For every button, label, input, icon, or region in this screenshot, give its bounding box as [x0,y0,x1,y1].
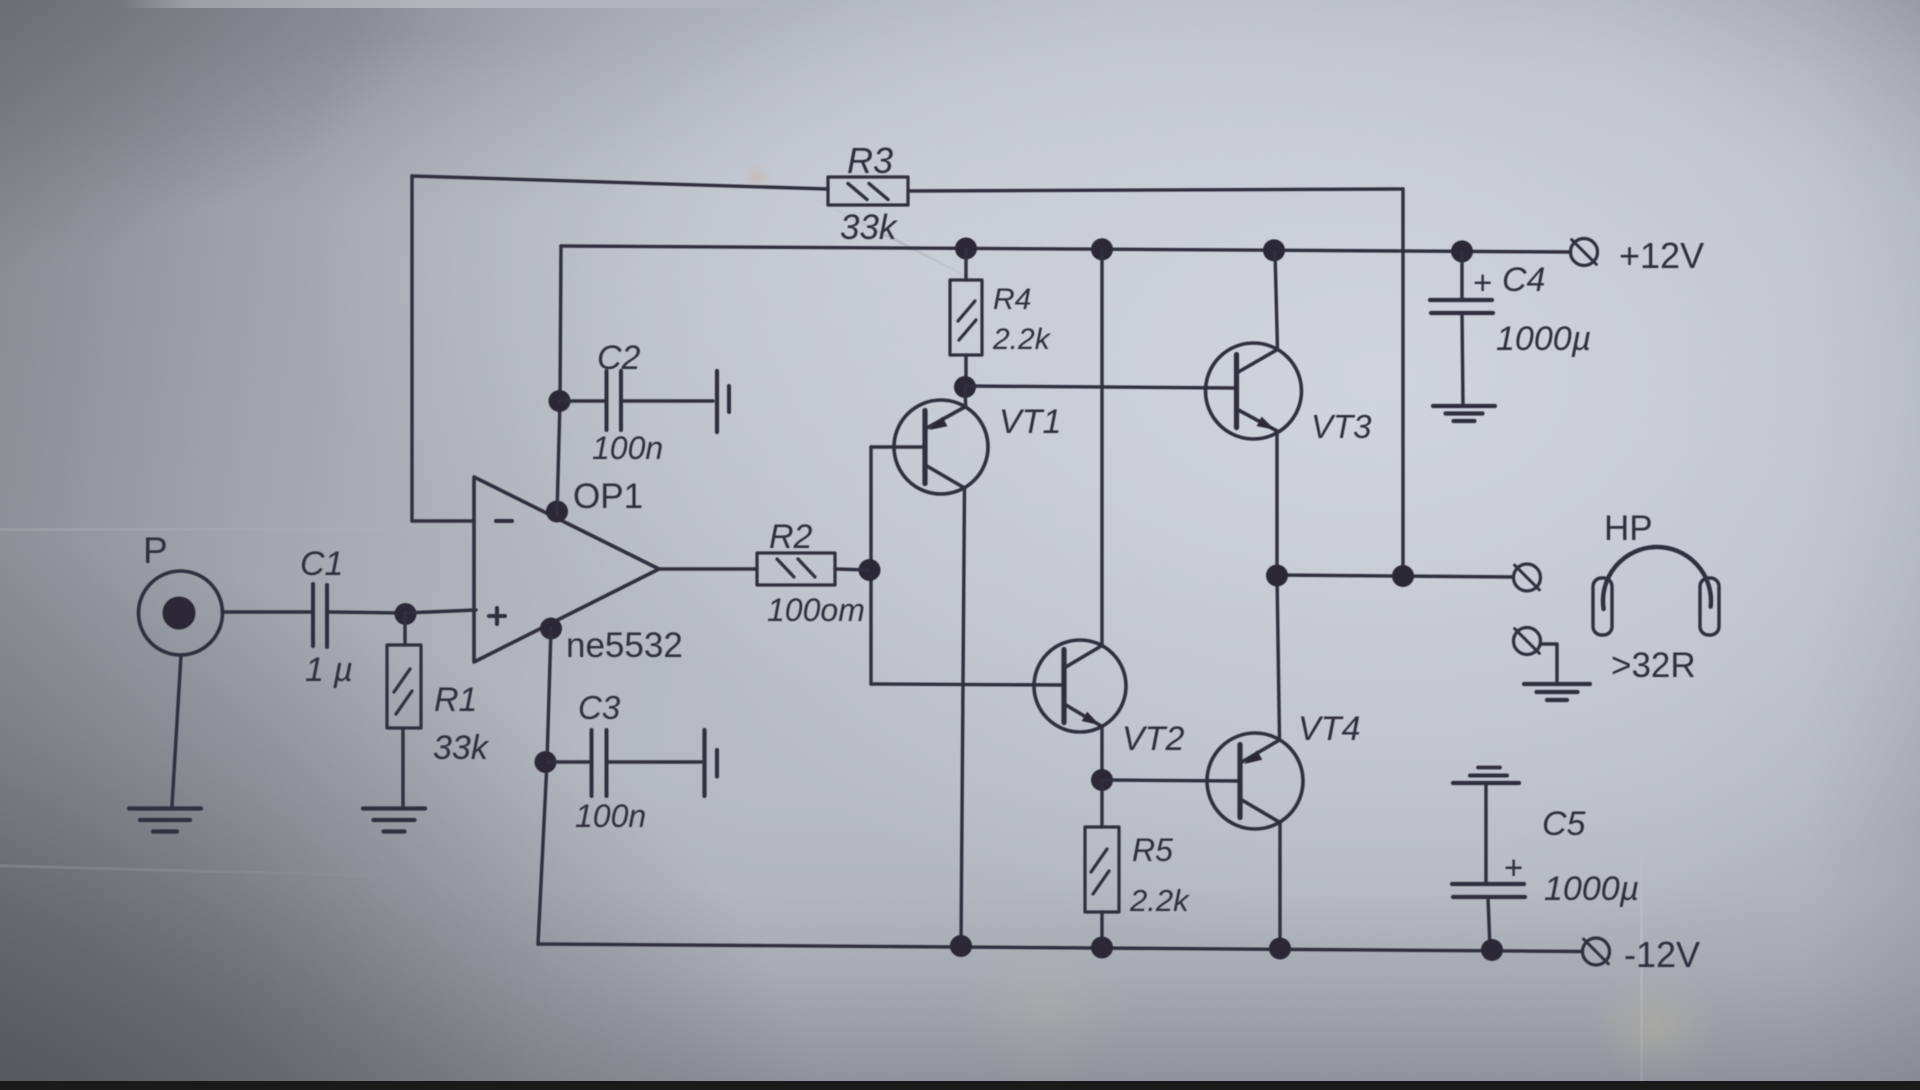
svg-text:ne5532: ne5532 [566,626,683,665]
svg-text:VT4: VT4 [1298,710,1360,748]
svg-text:C1: C1 [300,545,343,583]
svg-text:VT2: VT2 [1122,720,1184,758]
svg-text:100n: 100n [592,430,663,466]
svg-text:R3: R3 [847,140,893,181]
svg-text:1 µ: 1 µ [305,651,353,689]
svg-text:1000µ: 1000µ [1496,320,1591,358]
svg-text:C4: C4 [1502,261,1545,299]
svg-text:>32R: >32R [1611,646,1696,685]
svg-text:33k: 33k [433,729,490,767]
svg-text:VT1: VT1 [999,403,1061,441]
svg-text:100n: 100n [575,798,646,834]
svg-text:C2: C2 [597,339,641,377]
svg-text:R4: R4 [993,283,1031,316]
svg-text:R5: R5 [1132,832,1173,868]
svg-text:-12V: -12V [1624,934,1700,975]
svg-text:2.2k: 2.2k [1129,883,1190,918]
svg-text:C3: C3 [578,689,621,726]
svg-text:VT3: VT3 [1311,408,1372,445]
svg-text:C5: C5 [1542,805,1586,843]
svg-text:+: + [1473,264,1492,301]
svg-text:HP: HP [1604,509,1653,548]
svg-text:+12V: +12V [1619,235,1704,276]
svg-text:+: + [1504,849,1523,886]
svg-text:33k: 33k [840,208,898,247]
svg-text:OP1: OP1 [573,477,643,516]
svg-text:1000µ: 1000µ [1544,870,1639,908]
svg-text:2.2k: 2.2k [992,323,1052,356]
svg-text:R1: R1 [434,681,477,719]
svg-text:R2: R2 [769,518,813,556]
svg-text:100om: 100om [767,592,865,628]
svg-text:P: P [143,530,168,571]
